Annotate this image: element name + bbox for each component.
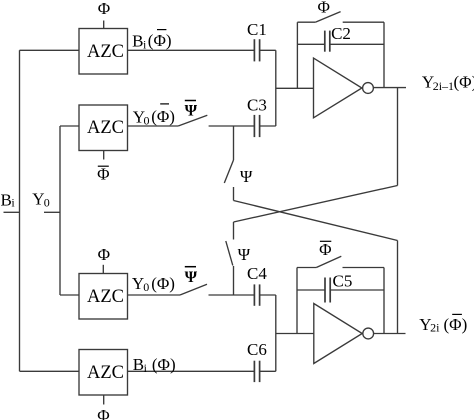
capacitor C6 plates <box>254 361 259 382</box>
switch psi S5 blade <box>224 160 233 183</box>
switch psi S6 blade <box>226 241 233 266</box>
svg-text:AZC: AZC <box>87 118 124 138</box>
svg-text:i: i <box>143 38 147 52</box>
svg-text:(Φ): (Φ) <box>148 31 172 50</box>
svg-text:AZC: AZC <box>87 287 124 307</box>
capacitor C2 plates <box>325 31 330 52</box>
switch psi S6 lower wire <box>233 266 235 295</box>
AZC block U3 <box>79 274 128 320</box>
capacitor C4 plates <box>254 284 259 305</box>
wire lower summing node vertical <box>275 295 277 371</box>
svg-text:B: B <box>133 355 144 374</box>
op-amp A1 output bubble <box>363 83 374 94</box>
svg-text:Ψ: Ψ <box>185 103 198 120</box>
wire Y0 bus vertical <box>59 126 61 295</box>
wire row2 after switch to C3 <box>209 125 255 127</box>
wire Bi bus vertical <box>19 50 21 371</box>
wire lower output <box>374 333 406 335</box>
svg-text:(Φ): (Φ) <box>151 107 175 126</box>
svg-text:i: i <box>11 196 15 210</box>
svg-text:C6: C6 <box>247 340 267 359</box>
switch psibar S1 blade <box>178 115 207 126</box>
svg-text:0: 0 <box>44 196 50 210</box>
svg-text:AZC: AZC <box>87 42 124 62</box>
svg-text:Ψ: Ψ <box>185 269 198 286</box>
svg-text:C3: C3 <box>247 96 267 115</box>
svg-text:Φ: Φ <box>98 245 110 264</box>
wire C2 right <box>330 43 384 45</box>
capacitor C5 plates <box>325 278 330 303</box>
wire Y0 bus to AZC U2 <box>60 125 79 127</box>
svg-text:Φ: Φ <box>317 0 329 17</box>
wire Bi bus to AZC U1 <box>20 49 80 51</box>
pin phibar tick U2 <box>103 151 105 160</box>
svg-text:(Φ): (Φ) <box>444 315 468 334</box>
wire lower feedback left vertical <box>296 268 298 334</box>
svg-text:(Φ): (Φ) <box>152 355 176 374</box>
switch phi S3 right wire <box>343 21 384 23</box>
wire row3 U3 output <box>128 294 181 296</box>
wire upper opamp input <box>276 87 314 89</box>
overline for phibar row1 <box>157 29 166 31</box>
wire C1 to summing node <box>260 49 276 51</box>
wire cross vertical from upper output <box>397 88 399 186</box>
svg-text:Ψ: Ψ <box>238 245 251 264</box>
svg-text:Ψ: Ψ <box>240 167 253 186</box>
svg-text:i: i <box>144 361 148 375</box>
svg-text:Φ: Φ <box>98 0 110 18</box>
wire Y0 bus to AZC U3 <box>60 294 79 296</box>
capacitor C3 plates <box>254 115 259 137</box>
wire cross vertical to lower output <box>397 241 399 334</box>
AZC block U4 <box>79 350 128 396</box>
wire C3 to summing node <box>260 125 276 127</box>
svg-text:(Φ): (Φ) <box>151 274 175 293</box>
svg-text:Φ: Φ <box>319 240 331 259</box>
switch psi S5 lower wire <box>233 187 235 201</box>
op-amp A1 triangle <box>314 58 362 118</box>
switch phibar S4 left wire <box>297 267 316 269</box>
overline for phibar row2 <box>160 103 169 105</box>
svg-text:B: B <box>1 190 12 209</box>
node Y0 input stub <box>44 211 60 213</box>
wire row4 U4 output to C6 <box>128 370 255 372</box>
svg-text:0: 0 <box>144 114 150 128</box>
svg-text:AZC: AZC <box>87 363 124 383</box>
svg-text:C5: C5 <box>333 271 353 290</box>
AZC block U1 <box>79 29 128 75</box>
switch phi S3 left wire <box>297 21 315 23</box>
svg-text:(Φ): (Φ) <box>454 73 474 92</box>
switch psi S6 lower: vertical from diagonal B <box>233 222 235 240</box>
pin phi tick U4 <box>103 395 105 405</box>
svg-text:2i: 2i <box>430 320 440 334</box>
svg-text:C2: C2 <box>331 24 351 43</box>
wire row2 U2 output <box>128 125 179 127</box>
wire row1 U1 output to C1 <box>128 49 255 51</box>
wire upper summing node vertical <box>275 50 277 126</box>
svg-text:C4: C4 <box>247 264 267 283</box>
wire C2 left <box>297 43 324 45</box>
switch phi S3 blade <box>315 12 340 23</box>
svg-text:C1: C1 <box>247 20 267 39</box>
wire C6 to summing node <box>260 370 276 372</box>
wire lower feedback right vertical <box>383 268 385 334</box>
wire C4 to summing node <box>260 294 276 296</box>
op-amp A2 output bubble <box>363 328 374 339</box>
wire upper feedback right vertical <box>383 22 385 87</box>
op-amp A2 triangle <box>314 304 362 364</box>
switch phibar S4 right wire <box>343 267 385 269</box>
wire C5 right <box>330 289 384 291</box>
wire row3 after switch to C4 <box>209 294 255 296</box>
wire Bi bus to AZC U4 <box>20 370 80 372</box>
svg-text:Φ: Φ <box>97 406 109 420</box>
capacitor C1 plates <box>254 39 259 61</box>
switch phibar S4 blade <box>316 256 341 267</box>
switch psibar S2 blade <box>180 284 207 295</box>
svg-text:Φ: Φ <box>97 165 109 184</box>
svg-text:B: B <box>132 32 143 51</box>
wire upper feedback left vertical <box>296 22 298 88</box>
wire lower opamp input <box>276 333 314 335</box>
node Bi input stub <box>4 211 20 213</box>
wire cross diagonal A to lower output <box>234 201 398 241</box>
svg-text:0: 0 <box>143 280 149 294</box>
switch psi S5 upper: vertical from row2 <box>233 126 235 160</box>
wire C5 left <box>297 289 325 291</box>
pin phi tick U3 <box>102 265 104 274</box>
AZC block U2 <box>79 105 128 151</box>
pin phi tick U1 <box>103 21 105 29</box>
svg-text:2i–1: 2i–1 <box>433 79 454 93</box>
wire upper output <box>373 87 406 89</box>
wire cross diagonal B to lower psi switch <box>234 186 398 223</box>
